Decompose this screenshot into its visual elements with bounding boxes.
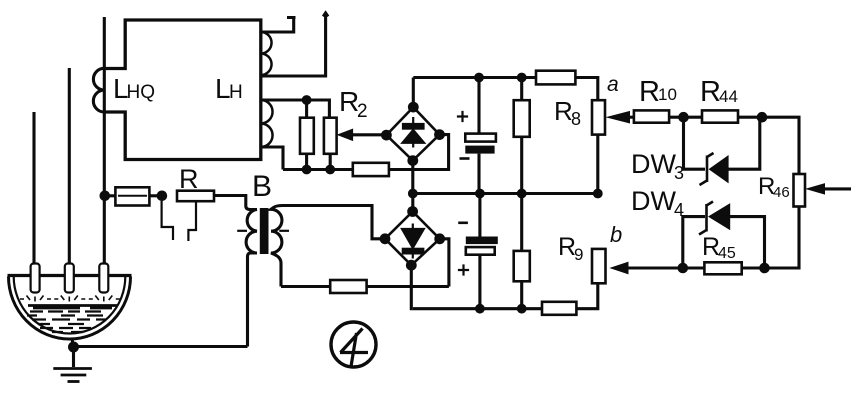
melt hatching <box>27 312 106 333</box>
resistor R2 right element <box>324 118 337 154</box>
wire R2 left top drop <box>305 100 308 118</box>
bottom DC bus <box>413 283 598 308</box>
junction dot R45 left <box>678 263 689 274</box>
svg-text:HQ: HQ <box>127 82 156 103</box>
label R45 <box>702 233 736 262</box>
electrode wire 2 <box>68 68 71 266</box>
resistor R2 left element <box>300 118 314 154</box>
svg-text:2: 2 <box>357 101 368 122</box>
label DW3 <box>631 149 684 183</box>
zener DW3 <box>700 153 729 185</box>
resistor R <box>177 191 214 202</box>
wiper arrow into R2 <box>352 133 386 136</box>
wire R10 to R44 <box>669 116 702 119</box>
label R44 <box>700 76 738 108</box>
capacitor C2 <box>466 194 498 309</box>
contact hook left <box>162 201 173 240</box>
wire transformer secondary top to bridge V2 left <box>283 206 385 239</box>
zener DW4 <box>699 202 730 235</box>
node dots bridge V1 <box>381 102 445 166</box>
transformer B secondary winding <box>271 206 283 287</box>
AC rail lower (transformer to bridge V2) <box>281 285 449 288</box>
C1 minus sign <box>460 157 470 160</box>
wire LH tap3 to R2 top <box>261 100 330 118</box>
wire R8 bottom to mid bus <box>596 135 599 194</box>
svg-text:4: 4 <box>674 200 684 220</box>
svg-text:B: B <box>252 170 272 203</box>
svg-text:DW: DW <box>631 186 676 216</box>
furnace rim <box>8 274 132 277</box>
svg-text:R: R <box>179 164 199 194</box>
fuse <box>104 187 161 205</box>
top bus dots <box>474 73 526 83</box>
svg-text:DW: DW <box>631 149 676 179</box>
wiper arrow into R9 <box>627 266 683 269</box>
svg-text:9: 9 <box>574 245 583 264</box>
bleeder resistor lower <box>514 194 530 309</box>
wire bottom AC rail (R2 to bridge V1 right) <box>283 135 449 170</box>
wire R44 to R46 top <box>738 117 799 174</box>
wire LH tap1 to top terminal <box>261 17 296 32</box>
label R46 <box>758 173 790 201</box>
junction dot after R44 <box>757 112 768 123</box>
electrode tip 3 <box>89 264 120 302</box>
junction dot R45 right <box>759 263 770 274</box>
resistor (AC rail series) <box>353 163 389 176</box>
figure number circle 4 <box>331 322 376 367</box>
svg-text:10: 10 <box>658 85 677 104</box>
transformer B secondary cusp tick <box>279 230 289 232</box>
inductor LHQ <box>93 68 104 112</box>
resistor (lower AC rail series) <box>330 280 366 293</box>
capacitor C1 <box>465 78 496 194</box>
resistor R44 <box>702 110 738 122</box>
svg-text:46: 46 <box>773 184 790 201</box>
saturable reactor box <box>104 20 260 160</box>
junction dots R2 <box>302 95 335 174</box>
electrode tip 1 <box>20 264 51 302</box>
melt surface <box>28 306 117 309</box>
bridge rectifier V2 <box>385 212 440 266</box>
svg-text:3: 3 <box>674 163 684 183</box>
junction dot after fuse <box>157 191 168 202</box>
furnace bowl outer shell <box>9 277 131 340</box>
wire LH tap4 to R2 bottom rail <box>261 147 283 170</box>
transformer B primary winding <box>246 206 257 347</box>
figure number glyph 4 <box>340 329 368 367</box>
bridge rectifier V1 <box>386 107 439 161</box>
ground symbol <box>53 369 92 382</box>
ground stem <box>72 339 74 367</box>
wire through R45 <box>683 266 765 269</box>
svg-text:a: a <box>607 73 619 96</box>
bridge V1 diode <box>403 117 425 148</box>
resistor R45 <box>704 262 741 274</box>
C2 plus sign <box>458 264 469 275</box>
svg-text:44: 44 <box>719 87 738 106</box>
inductor LH <box>261 32 273 147</box>
transformer B core <box>260 208 269 254</box>
label LHQ <box>113 73 155 104</box>
svg-text:45: 45 <box>718 245 736 262</box>
svg-text:b: b <box>610 222 622 247</box>
label R10 <box>639 76 677 108</box>
resistor R9 <box>592 249 606 283</box>
wire R2 bottoms <box>307 154 331 170</box>
resistor on bottom bus <box>542 302 576 315</box>
wiper arrow into R8 <box>629 116 633 119</box>
resistor on top bus <box>536 71 575 85</box>
svg-text:8: 8 <box>571 109 581 129</box>
electrode wire 3 (phase through LHQ) <box>103 17 106 266</box>
svg-text:R: R <box>639 76 660 108</box>
bottom bus dots <box>475 304 527 314</box>
zener DW4 branch <box>683 217 765 268</box>
DC+ top bus <box>413 78 598 101</box>
furnace return wire <box>74 345 248 348</box>
contact hook right <box>188 201 196 241</box>
node dots bridge V2 <box>380 206 446 271</box>
svg-text:H: H <box>229 82 243 103</box>
wire bridge V1 bottom to bridge V2 top <box>411 161 414 212</box>
label R8 <box>554 96 581 129</box>
transformer B primary cusp tick <box>237 230 247 232</box>
C2 minus sign <box>458 222 468 225</box>
wiper arrow into R46 <box>824 187 851 190</box>
mid bus <box>413 192 598 195</box>
resistor R8 <box>592 100 605 134</box>
furnace bowl inner shell <box>14 277 126 334</box>
label R2 <box>339 86 368 122</box>
svg-text:R: R <box>700 76 721 108</box>
mid bus dots <box>408 189 603 199</box>
wire bridge V1 top to DC+ bus <box>412 78 415 108</box>
C1 plus sign <box>457 111 468 122</box>
junction dot after R10 <box>678 112 689 123</box>
furnace bottom node <box>68 342 79 353</box>
wire R to transformer primary <box>214 196 246 207</box>
zener DW3 branch <box>684 117 760 169</box>
label DW4 <box>631 186 684 220</box>
bridge V2 diode <box>402 224 424 259</box>
resistor R10 <box>634 110 669 122</box>
wire bridge V2 bottom to DC bottom bus <box>411 265 413 309</box>
label LH <box>215 73 243 104</box>
label R9 <box>558 233 583 264</box>
wire LH tap2 up <box>261 13 328 76</box>
electrode wire 1 <box>32 112 35 266</box>
wire bridge V2 right to AC rail <box>440 239 449 287</box>
bleeder resistor upper <box>514 78 530 194</box>
electrode tip 2 <box>54 264 85 302</box>
svg-text:R: R <box>554 96 573 126</box>
junction dot electrode3 tap <box>100 191 111 202</box>
wire R46 bottom to R45 node <box>765 207 800 269</box>
resistor R46 <box>794 174 806 207</box>
